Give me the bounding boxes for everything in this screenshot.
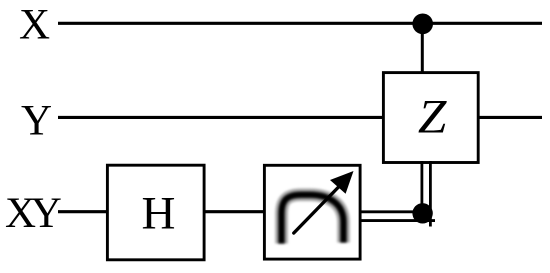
svg-text:Z: Z [418, 91, 448, 144]
classical wire double horizontal top line [361, 210, 424, 213]
classical wire double vertical left line [420, 161, 423, 214]
wire H gate to meter [204, 210, 264, 213]
wire XY to H gate [58, 210, 107, 213]
svg-text:XY: XY [5, 190, 61, 237]
meter arc (blurry gauge) core [282, 195, 344, 244]
gate Z box [383, 73, 478, 163]
junction dot (classical control) [412, 203, 432, 223]
meter needle arrowhead [330, 171, 354, 194]
wire Y right segment [478, 116, 542, 119]
meter arc (blurry gauge) gray halo [282, 195, 344, 244]
control dot on X wire [412, 13, 433, 34]
meter needle shaft [294, 186, 340, 234]
wire X (top qubit line) [58, 22, 542, 25]
wire control dot to Z box [421, 24, 424, 72]
wire Y left segment [58, 116, 383, 119]
classical wire double horizontal bottom line [361, 219, 435, 222]
svg-text:X: X [19, 2, 50, 49]
gate H box [107, 165, 204, 260]
svg-text:H: H [142, 188, 176, 240]
svg-text:Y: Y [21, 98, 52, 145]
meter box (measurement gate) [264, 165, 360, 259]
classical wire double vertical right line [429, 161, 432, 227]
